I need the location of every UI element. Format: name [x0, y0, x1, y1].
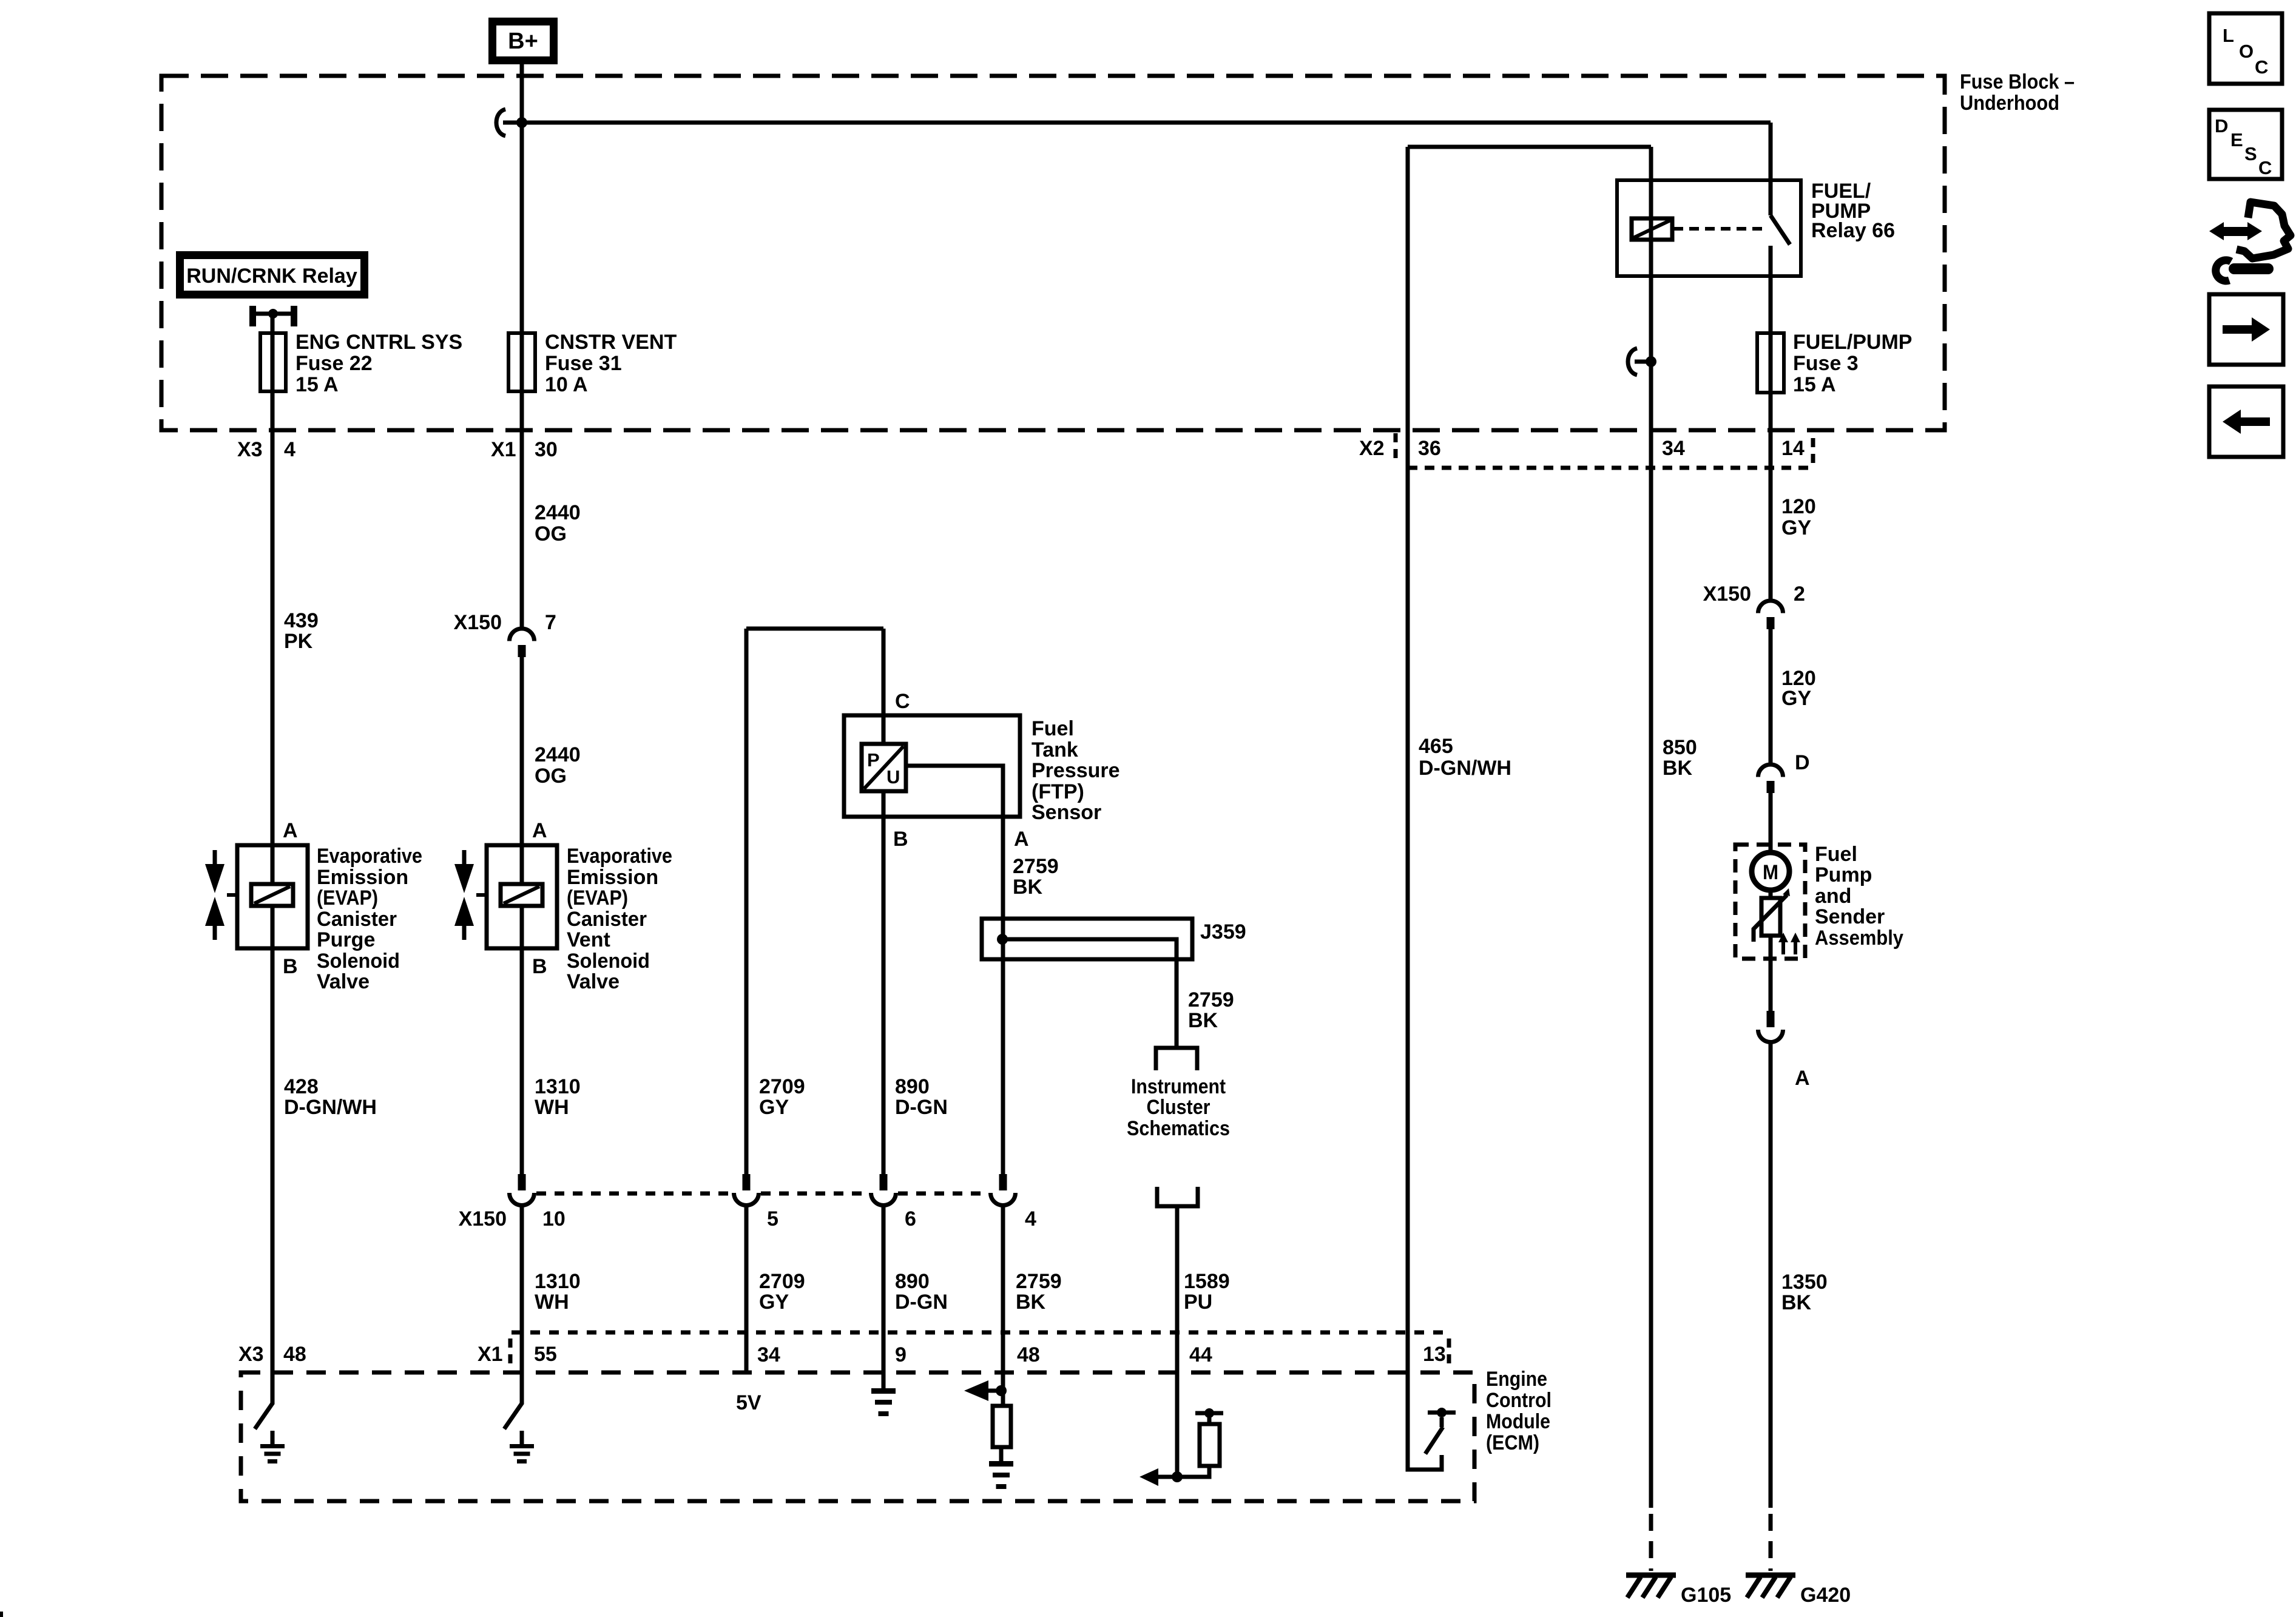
svg-text:Emission: Emission: [317, 866, 408, 889]
svg-text:M: M: [1763, 861, 1778, 884]
svg-text:X2: X2: [1359, 437, 1385, 460]
svg-text:X150: X150: [1703, 582, 1751, 606]
svg-text:Solenoid: Solenoid: [317, 950, 400, 973]
svg-text:G105: G105: [1681, 1584, 1731, 1607]
svg-text:Engine: Engine: [1486, 1368, 1547, 1391]
svg-text:X1: X1: [491, 438, 516, 461]
svg-text:30: 30: [535, 438, 558, 461]
svg-text:Fuse Block –: Fuse Block –: [1960, 70, 2075, 93]
svg-text:BK: BK: [1781, 1291, 1812, 1314]
svg-text:2440: 2440: [535, 743, 581, 766]
svg-text:PU: PU: [1184, 1291, 1212, 1314]
svg-text:GY: GY: [1781, 687, 1811, 710]
svg-text:Assembly: Assembly: [1815, 927, 1903, 950]
svg-text:E: E: [2230, 129, 2243, 150]
svg-text:44: 44: [1189, 1343, 1212, 1366]
svg-text:GY: GY: [759, 1096, 789, 1119]
svg-text:RUN/CRNK Relay: RUN/CRNK Relay: [186, 265, 357, 288]
svg-text:Module: Module: [1486, 1410, 1550, 1433]
svg-text:A: A: [1014, 828, 1029, 851]
svg-text:850: 850: [1663, 736, 1697, 759]
svg-text:Canister: Canister: [317, 908, 397, 931]
svg-text:5: 5: [767, 1207, 778, 1230]
svg-text:Evaporative: Evaporative: [317, 845, 422, 868]
svg-text:J359: J359: [1200, 920, 1246, 944]
svg-text:G420: G420: [1800, 1584, 1851, 1607]
svg-text:GY: GY: [1781, 516, 1811, 539]
svg-text:P: P: [867, 749, 880, 771]
svg-text:B+: B+: [508, 29, 538, 54]
svg-text:A: A: [532, 819, 547, 842]
svg-text:1589: 1589: [1184, 1270, 1230, 1293]
svg-text:428: 428: [284, 1075, 319, 1098]
svg-text:BK: BK: [1013, 876, 1043, 899]
svg-text:Valve: Valve: [567, 970, 620, 993]
svg-text:Control: Control: [1486, 1389, 1551, 1412]
svg-text:15 A: 15 A: [1793, 373, 1836, 396]
svg-text:4: 4: [284, 438, 295, 461]
svg-text:7: 7: [545, 611, 556, 634]
svg-text:BK: BK: [1188, 1009, 1218, 1032]
svg-text:B: B: [532, 955, 547, 978]
svg-text:Pump: Pump: [1815, 863, 1872, 886]
svg-text:2759: 2759: [1013, 855, 1059, 878]
svg-text:Underhood: Underhood: [1960, 92, 2059, 115]
svg-text:OG: OG: [535, 765, 567, 788]
svg-text:890: 890: [895, 1075, 930, 1098]
svg-text:Emission: Emission: [567, 866, 658, 889]
svg-text:WH: WH: [535, 1096, 569, 1119]
svg-text:34: 34: [1662, 437, 1685, 460]
svg-text:13: 13: [1423, 1343, 1446, 1366]
svg-text:(FTP): (FTP): [1032, 780, 1084, 803]
svg-text:5V: 5V: [736, 1391, 761, 1414]
svg-text:(ECM): (ECM): [1486, 1431, 1539, 1454]
svg-text:890: 890: [895, 1270, 930, 1293]
svg-text:A: A: [283, 819, 298, 842]
svg-text:A: A: [1795, 1067, 1810, 1090]
svg-text:2759: 2759: [1016, 1270, 1062, 1293]
svg-text:B: B: [283, 955, 298, 978]
svg-text:X1: X1: [478, 1343, 503, 1366]
svg-text:and: and: [1815, 885, 1851, 908]
svg-text:Tank: Tank: [1032, 738, 1078, 761]
svg-text:2759: 2759: [1188, 988, 1234, 1011]
svg-text:6: 6: [905, 1207, 916, 1230]
svg-text:GY: GY: [759, 1291, 789, 1314]
svg-text:439: 439: [284, 609, 319, 632]
svg-text:D: D: [2215, 115, 2228, 137]
svg-text:Fuse 3: Fuse 3: [1793, 352, 1859, 375]
svg-text:4: 4: [1025, 1207, 1036, 1230]
svg-text:(EVAP): (EVAP): [567, 886, 628, 910]
svg-text:ENG CNTRL SYS: ENG CNTRL SYS: [295, 331, 462, 354]
svg-text:Schematics: Schematics: [1127, 1117, 1230, 1140]
svg-text:Relay 66: Relay 66: [1811, 219, 1895, 242]
svg-text:14: 14: [1781, 437, 1805, 460]
svg-text:48: 48: [283, 1343, 306, 1366]
svg-text:10: 10: [542, 1207, 566, 1230]
svg-text:X150: X150: [459, 1207, 507, 1230]
svg-text:Fuel: Fuel: [1815, 843, 1857, 866]
svg-text:Instrument: Instrument: [1131, 1075, 1226, 1098]
svg-text:120: 120: [1781, 495, 1816, 518]
svg-text:1350: 1350: [1781, 1271, 1828, 1294]
svg-text:2709: 2709: [759, 1075, 805, 1098]
svg-text:34: 34: [757, 1343, 780, 1366]
svg-text:X3: X3: [237, 438, 263, 461]
svg-text:Cluster: Cluster: [1147, 1096, 1210, 1119]
svg-text:D-GN/WH: D-GN/WH: [1419, 757, 1511, 780]
svg-text:Valve: Valve: [317, 970, 370, 993]
svg-text:D: D: [1795, 751, 1810, 774]
svg-text:BK: BK: [1016, 1291, 1046, 1314]
svg-text:2440: 2440: [535, 501, 581, 524]
svg-text:Fuse 31: Fuse 31: [545, 352, 622, 375]
svg-text:B: B: [893, 828, 908, 851]
svg-text:48: 48: [1017, 1343, 1040, 1366]
svg-text:CNSTR VENT: CNSTR VENT: [545, 331, 677, 354]
svg-text:OG: OG: [535, 522, 567, 545]
svg-text:O: O: [2239, 41, 2254, 62]
svg-text:Fuse 22: Fuse 22: [295, 352, 373, 375]
svg-text:15 A: 15 A: [295, 373, 339, 396]
svg-text:1310: 1310: [535, 1270, 581, 1293]
svg-text:Sensor: Sensor: [1032, 801, 1101, 824]
svg-text:PK: PK: [284, 630, 313, 653]
svg-text:10 A: 10 A: [545, 373, 588, 396]
svg-text:Solenoid: Solenoid: [567, 950, 650, 973]
svg-text:X3: X3: [238, 1343, 264, 1366]
svg-text:C: C: [2255, 56, 2268, 78]
svg-text:465: 465: [1419, 735, 1453, 758]
svg-text:Canister: Canister: [567, 908, 647, 931]
svg-text:L: L: [2223, 25, 2234, 46]
svg-text:C: C: [2258, 157, 2272, 178]
svg-text:Pressure: Pressure: [1032, 759, 1120, 782]
svg-text:D-GN: D-GN: [895, 1096, 948, 1119]
svg-text:U: U: [886, 766, 900, 788]
svg-text:X150: X150: [454, 611, 502, 634]
svg-text:Fuel: Fuel: [1032, 717, 1074, 740]
svg-text:Evaporative: Evaporative: [567, 845, 672, 868]
svg-text:2: 2: [1794, 582, 1805, 606]
svg-text:36: 36: [1418, 437, 1441, 460]
svg-text:(EVAP): (EVAP): [317, 886, 378, 910]
svg-text:Sender: Sender: [1815, 905, 1885, 928]
svg-text:D-GN/WH: D-GN/WH: [284, 1096, 377, 1119]
svg-text:Vent: Vent: [567, 928, 610, 951]
svg-text:2709: 2709: [759, 1270, 805, 1293]
svg-text:C: C: [895, 690, 910, 713]
svg-text:WH: WH: [535, 1291, 569, 1314]
svg-text:9: 9: [895, 1343, 907, 1366]
svg-text:Purge: Purge: [317, 928, 375, 951]
svg-text:S: S: [2244, 143, 2257, 164]
svg-text:55: 55: [534, 1343, 557, 1366]
svg-text:D-GN: D-GN: [895, 1291, 948, 1314]
svg-text:BK: BK: [1663, 757, 1693, 780]
svg-text:FUEL/PUMP: FUEL/PUMP: [1793, 331, 1912, 354]
svg-text:1310: 1310: [535, 1075, 581, 1098]
